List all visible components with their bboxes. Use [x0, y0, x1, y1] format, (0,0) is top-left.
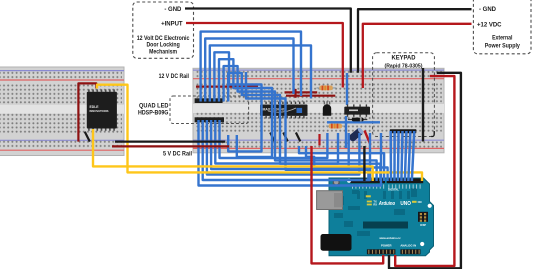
wire red door lock +INPUT: [186, 23, 343, 88]
svg-text:www.arduino.cc: www.arduino.cc: [378, 236, 401, 240]
wire blue row-g segment: [327, 121, 380, 123]
wire blue B2: [203, 120, 370, 180]
resistor R2: [326, 124, 344, 129]
resistor R1: [317, 86, 337, 91]
quad LED dashed box: [170, 96, 249, 124]
transistor Q1 body: [323, 104, 331, 116]
capacitor C1: [348, 127, 365, 144]
IC U3 EDLE INNOVATIONS body: [87, 92, 117, 129]
transistor Q1 legs: [324, 101, 329, 104]
wire black slash 1: [270, 133, 274, 142]
external power supply dashed box: [473, 0, 531, 54]
wire blue vertical x347 lower: [345, 116, 347, 148]
wire blue keypad 4: [401, 131, 402, 181]
wire blue D6: [306, 146, 388, 181]
svg-text:+INPUT: +INPUT: [161, 22, 183, 28]
svg-text:ANALOG IN: ANALOG IN: [400, 243, 416, 247]
wire black slash 3: [296, 133, 300, 142]
wire red external +12VDC: [363, 24, 472, 88]
svg-text:RX: RX: [373, 203, 377, 207]
wire blue A6: [224, 66, 377, 181]
breadboard BB2 body: [193, 68, 444, 153]
Arduino ICSP header: [418, 212, 428, 227]
wire blue keypad 5: [405, 131, 407, 181]
wire black external GND: [358, 9, 472, 73]
wire red jumper mid2: [286, 95, 335, 97]
wire blue A7: [228, 73, 380, 181]
wire black door lock GND: [185, 9, 351, 73]
svg-text:Mechanism: Mechanism: [149, 49, 177, 55]
wire blue B5: [215, 120, 338, 164]
Arduino LEDs TX RX L ON: [366, 195, 422, 206]
wire blue keypad 3: [397, 131, 400, 181]
wire blue A1: [201, 32, 301, 102]
wire blue A2: [205, 39, 293, 102]
Arduino Uno board: [329, 178, 434, 256]
wire blue A3: [210, 45, 311, 101]
keypad dashed box: [373, 53, 435, 137]
Arduino digital header left: [350, 178, 385, 183]
Arduino mounting holes: [347, 179, 432, 247]
svg-text:Arduino: Arduino: [378, 201, 396, 207]
wire blue D7: [299, 146, 384, 181]
quad LED display top pin bar: [195, 98, 223, 103]
wire blue keypad 1: [389, 131, 392, 181]
wire red rail link between boards: [112, 145, 229, 147]
wire blue vertical x347 upper: [346, 73, 348, 105]
svg-text:12 Volt DC Electronic: 12 Volt DC Electronic: [137, 36, 190, 42]
Arduino reset button: [333, 179, 340, 186]
diode D1 leads: [348, 119, 367, 121]
IC U2 555 pins: [347, 104, 367, 116]
Arduino ATmega chip: [363, 222, 408, 229]
wire blue B1: [199, 120, 382, 186]
svg-text:DIGITAL: DIGITAL: [388, 188, 399, 192]
wire red rail to Arduino loop: [395, 76, 454, 266]
Arduino power jack: [321, 234, 352, 251]
IC U1 MAX7219 body: [260, 105, 308, 116]
keypad connector J1 body: [390, 129, 417, 133]
wire blue keypad 6: [408, 131, 410, 181]
Arduino USB connector: [317, 191, 343, 210]
wire black rail link between boards: [115, 140, 225, 142]
quad LED display bottom pin bar: [195, 117, 224, 122]
svg-text:12 V DC Rail: 12 V DC Rail: [159, 74, 190, 80]
IC U3 EDLE INNOVATIONS pins: [88, 89, 115, 130]
svg-text:- GND: - GND: [164, 7, 182, 13]
wire blue B6: [220, 120, 328, 158]
svg-text:ICSP: ICSP: [420, 223, 426, 227]
wire black rail to Arduino GND: [363, 146, 365, 181]
svg-text:5 V DC Rail: 5 V DC Rail: [163, 151, 192, 157]
wire black rail to Arduino loop: [389, 73, 461, 268]
svg-text:External: External: [492, 36, 513, 42]
wire red jumper row-a: [196, 85, 258, 87]
door lock mechanism dashed box: [133, 2, 194, 58]
svg-text:ON: ON: [418, 200, 422, 204]
IC U1 MAX7219 pins: [261, 102, 304, 119]
svg-text:HDSP-B09G: HDSP-B09G: [138, 111, 169, 117]
Arduino digital header right: [387, 178, 424, 183]
wire red 5V rail to Arduino: [312, 146, 384, 263]
svg-text:POWER: POWER: [381, 243, 392, 247]
wire blue B3: [207, 120, 360, 175]
wire black stub near keypad: [431, 131, 434, 137]
svg-text:QUAD LED: QUAD LED: [139, 103, 169, 109]
wire blue B4: [211, 120, 349, 169]
svg-text:Door Locking: Door Locking: [146, 43, 180, 49]
svg-text:KEYPAD: KEYPAD: [392, 55, 417, 62]
wire black keypad column: [422, 68, 424, 142]
breadboard BB1 body: [0, 67, 124, 156]
svg-text:- GND: - GND: [479, 7, 497, 13]
IC U2 555 body: [344, 107, 370, 115]
wire black slash left board: [85, 132, 90, 142]
wire red jumper mid1: [285, 91, 318, 93]
wire blue keypad 2: [393, 131, 396, 181]
svg-text:UNO: UNO: [400, 201, 411, 207]
svg-text:(Rapid 78-0305): (Rapid 78-0305): [385, 63, 423, 69]
svg-text:+12 VDC: +12 VDC: [477, 23, 502, 29]
wire blue A4: [214, 52, 261, 151]
wire blue keypad 7: [412, 131, 414, 181]
wire yellow 2: [97, 85, 422, 181]
wire red diagonal: [365, 131, 371, 145]
diode D1 body: [352, 118, 364, 122]
wire blue A5: [219, 59, 272, 157]
wire red stub row-j to rail: [318, 134, 320, 146]
wire yellow 1: [93, 129, 373, 181]
wire red loop left board: [78, 83, 96, 141]
wire blue A8 cascade: [246, 72, 368, 181]
svg-text:INNOVATIONS: INNOVATIONS: [90, 109, 109, 113]
svg-text:Power Supply: Power Supply: [485, 43, 521, 49]
wire black slash 2: [283, 133, 287, 142]
wire red jumper vertical: [294, 89, 296, 98]
